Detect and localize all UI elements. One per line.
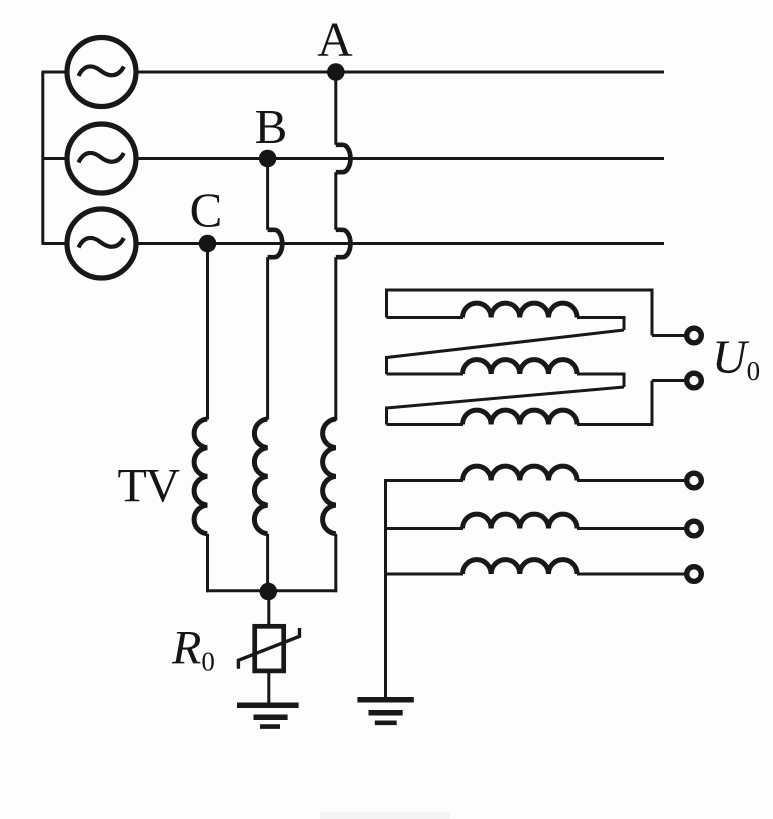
TV primary winding phase C (left coil) — [194, 419, 207, 534]
open delta diagonal 1 — [387, 330, 625, 358]
svg-text:R0: R0 — [171, 622, 215, 677]
primary neutral junction dot — [260, 583, 278, 601]
wire drop from node A (upper) — [334, 72, 337, 145]
wire drop from node B (lower) — [266, 257, 269, 419]
open delta left vertical 2 — [385, 356, 388, 374]
wire stub to source A — [42, 71, 68, 74]
open delta right vertical bottom — [651, 381, 654, 427]
open delta winding 2 lead-out — [577, 373, 624, 376]
secondary winding 1 lead-in — [384, 479, 463, 482]
terminal U0 bottom — [687, 373, 702, 388]
wire phase B line — [136, 157, 664, 160]
open delta right vertical top — [651, 289, 654, 336]
wire stub to U0 bottom terminal — [652, 379, 685, 382]
secondary winding 3 lead-in — [384, 573, 463, 576]
secondary winding 3 lead-out — [577, 573, 685, 576]
wire below coil C — [206, 534, 209, 592]
svg-text:B: B — [255, 99, 288, 154]
wire stub to source B — [42, 157, 68, 160]
wire stub to source C — [42, 242, 68, 245]
secondary winding 3 coil — [463, 560, 578, 574]
svg-text:U0: U0 — [712, 331, 760, 386]
AC source G2 (phase B) — [67, 124, 136, 193]
wire primary neutral rail — [206, 589, 337, 592]
svg-text:A: A — [317, 12, 353, 67]
wire neutral to R0 — [267, 591, 270, 627]
svg-text:C: C — [190, 183, 223, 238]
wire hop of A-drop over phase C — [336, 230, 351, 257]
open delta winding 1 end cap — [623, 316, 626, 330]
open delta winding 2 coil — [463, 360, 578, 374]
secondary winding 1 lead-out — [577, 479, 685, 482]
wire phase C line — [136, 242, 664, 245]
secondary winding 1 coil — [463, 466, 578, 480]
wire hop of B-drop over phase C — [268, 230, 283, 257]
wire left bus vertical — [41, 72, 44, 244]
open delta winding 1 coil — [463, 303, 578, 317]
open delta winding 3 lead-out — [577, 423, 654, 426]
open delta winding 1 lead-out — [577, 316, 624, 319]
wire drop from node C — [206, 244, 209, 420]
open delta winding 2 end cap — [623, 373, 626, 388]
wire below coil A — [334, 534, 337, 592]
open delta top rail — [387, 289, 653, 292]
secondary winding 2 lead-in — [384, 527, 463, 530]
open delta winding 3 lead-in — [387, 423, 464, 426]
AC source G3 (phase C) — [67, 209, 136, 278]
open delta left vertical 1 — [385, 289, 388, 318]
ground under secondary bus — [357, 700, 413, 723]
open delta left vertical 3 — [385, 407, 388, 425]
svg-text:TV: TV — [118, 460, 181, 513]
wire hop of A-drop over phase B — [336, 145, 351, 172]
AC source G1 (phase A) — [67, 38, 136, 107]
terminal secondary 2 — [687, 521, 702, 536]
node B junction dot — [259, 150, 277, 168]
node C junction dot — [199, 235, 217, 253]
terminal secondary 3 — [687, 567, 702, 582]
secondary star left bus — [384, 481, 387, 699]
terminal U0 top — [687, 328, 702, 343]
ground under R0 — [237, 705, 299, 726]
wire drop from node A (lower) — [334, 257, 337, 420]
node A junction dot — [327, 63, 345, 81]
wire drop from node B (upper) — [266, 159, 269, 230]
wire phase A line — [136, 71, 664, 74]
resistor R0 slash — [238, 628, 299, 669]
resistor R0 nonlinear box — [255, 626, 284, 671]
TV primary winding phase A (right coil) — [323, 419, 336, 534]
wire drop from node A (middle) — [334, 172, 337, 230]
terminal secondary 1 — [687, 473, 702, 488]
faint cropped mark at bottom — [320, 812, 450, 819]
TV primary winding phase B (middle coil) — [254, 419, 267, 534]
open delta winding 1 lead-in — [387, 316, 464, 319]
wire below coil B — [266, 534, 269, 592]
secondary winding 2 lead-out — [577, 527, 685, 530]
wire R0 to ground — [267, 671, 270, 703]
open delta winding 2 lead-in — [387, 373, 464, 376]
open delta winding 3 coil — [463, 410, 578, 424]
open delta diagonal 2 — [387, 387, 625, 408]
wire stub to U0 top terminal — [652, 334, 685, 337]
secondary winding 2 coil — [463, 514, 578, 528]
